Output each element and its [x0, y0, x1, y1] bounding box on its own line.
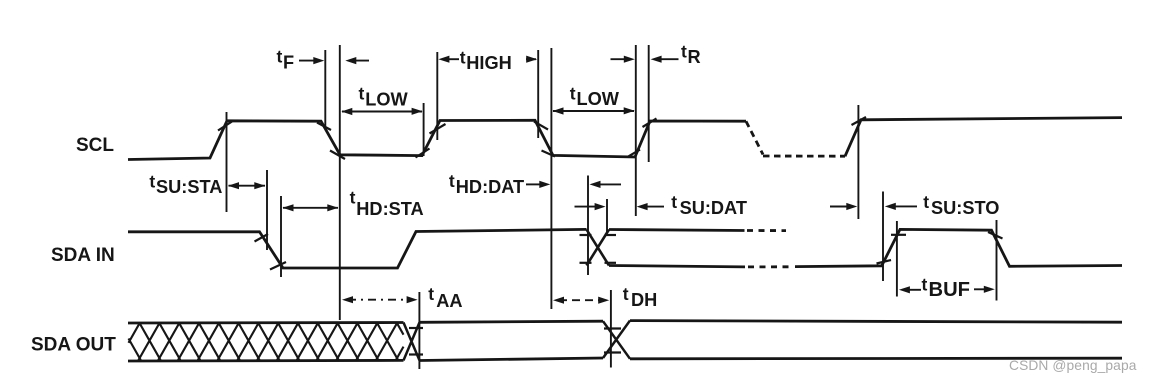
svg-text:t: t — [350, 188, 356, 208]
svg-text:t: t — [149, 172, 155, 192]
svg-text:t: t — [359, 84, 365, 104]
svg-text:AA: AA — [436, 291, 462, 311]
svg-text:LOW: LOW — [577, 89, 620, 109]
svg-text:SU:DAT: SU:DAT — [680, 198, 747, 218]
svg-text:CSDN @peng_papa: CSDN @peng_papa — [1009, 358, 1137, 373]
svg-text:SCL: SCL — [76, 135, 114, 156]
svg-text:LOW: LOW — [365, 89, 408, 109]
svg-text:SDA IN: SDA IN — [51, 245, 115, 266]
svg-text:t: t — [428, 284, 434, 304]
svg-text:BUF: BUF — [929, 279, 971, 301]
svg-text:HIGH: HIGH — [466, 53, 511, 73]
svg-text:SU:STA: SU:STA — [156, 177, 222, 197]
svg-text:t: t — [570, 83, 576, 103]
svg-text:R: R — [688, 47, 701, 67]
svg-text:t: t — [922, 274, 928, 294]
svg-text:HD:DAT: HD:DAT — [456, 177, 524, 197]
svg-text:HD:STA: HD:STA — [356, 199, 423, 219]
svg-text:SU:STO: SU:STO — [931, 198, 999, 218]
svg-text:F: F — [283, 52, 294, 72]
svg-text:t: t — [449, 171, 455, 191]
svg-text:t: t — [623, 284, 629, 304]
svg-text:t: t — [923, 192, 929, 212]
svg-text:t: t — [671, 192, 677, 212]
svg-text:DH: DH — [631, 290, 657, 310]
svg-text:t: t — [460, 47, 466, 67]
svg-text:SDA OUT: SDA OUT — [31, 335, 116, 356]
svg-text:t: t — [277, 47, 283, 67]
svg-text:t: t — [681, 41, 687, 61]
